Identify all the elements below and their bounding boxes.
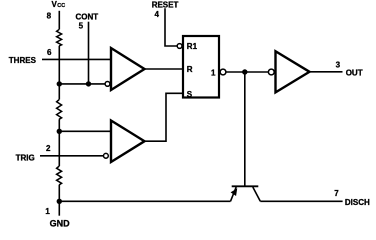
wire RA to RB <box>58 46 60 99</box>
node CONT junction <box>86 81 91 86</box>
inverting bubble flip-flop output <box>220 69 226 75</box>
svg-text:S: S <box>187 90 193 99</box>
transistor Q1 emitter leg <box>231 187 237 201</box>
transistor Q1 base bar <box>232 185 259 187</box>
svg-text:R1: R1 <box>187 42 198 51</box>
wire RC to ground node <box>58 185 60 201</box>
transistor Q1 collector leg <box>253 187 260 201</box>
wire collector to DISCH pin <box>260 200 342 202</box>
svg-text:THRES: THRES <box>9 56 37 65</box>
wire RESET down to R1 input <box>165 8 177 46</box>
inverting bubble buffer input <box>268 69 274 75</box>
wire flip-flop output to buffer input <box>226 71 268 73</box>
svg-text:8: 8 <box>47 11 52 20</box>
wire divider junction to U2 plus input <box>59 130 110 132</box>
wire TRIG to comparator U2 minus input <box>40 155 103 157</box>
wire U1 output to R input <box>145 68 184 70</box>
svg-text:GND: GND <box>50 218 71 228</box>
inverting bubble U1 minus input <box>105 82 110 87</box>
svg-text:6: 6 <box>47 48 52 57</box>
wire ground node to emitter <box>59 200 230 202</box>
wire divider junction to U1 minus input <box>59 83 105 85</box>
svg-text:1: 1 <box>211 69 216 78</box>
comparator U1 threshold <box>111 48 145 90</box>
inverting bubble R1 input <box>177 44 182 49</box>
svg-text:TRIG: TRIG <box>16 153 35 162</box>
svg-text:OUT: OUT <box>346 68 363 77</box>
svg-text:DISCH: DISCH <box>345 198 370 207</box>
svg-text:4: 4 <box>155 10 160 19</box>
node ground junction <box>57 199 62 204</box>
wire CONT down to divider junction <box>88 22 90 84</box>
wire THRES to comparator U1 plus input <box>42 58 111 60</box>
comparator U2 trigger <box>111 121 145 163</box>
svg-text:7: 7 <box>334 189 339 198</box>
wire Vcc pin 8 down to resistor chain <box>58 11 60 30</box>
svg-text:CONT: CONT <box>76 13 99 22</box>
svg-text:5: 5 <box>79 22 84 31</box>
svg-text:CC: CC <box>57 3 65 9</box>
node junction CONT level <box>57 81 62 86</box>
node junction TRIG level <box>57 129 62 134</box>
svg-text:3: 3 <box>336 60 341 69</box>
wire RB to RC <box>58 119 60 166</box>
wire node down to transistor Q1 base <box>244 72 246 186</box>
svg-text:1: 1 <box>45 207 50 216</box>
svg-text:2: 2 <box>46 144 51 153</box>
transistor Q1 emitter arrow <box>232 189 237 195</box>
inverting bubble U2 minus input <box>104 153 109 158</box>
resistor RA (divider top) <box>57 29 62 46</box>
node output to transistor base <box>242 69 247 74</box>
resistor RC (divider bottom) <box>57 166 62 185</box>
wire pin 1 stub <box>58 201 60 215</box>
svg-text:R: R <box>187 65 193 74</box>
output buffer U4 <box>276 51 310 92</box>
wire U2 output to S input <box>145 93 184 141</box>
Vcc power label <box>52 0 66 9</box>
resistor RB (divider middle) <box>57 99 62 119</box>
flip-flop U3 box <box>183 36 219 98</box>
wire buffer output to OUT pin <box>310 71 343 73</box>
